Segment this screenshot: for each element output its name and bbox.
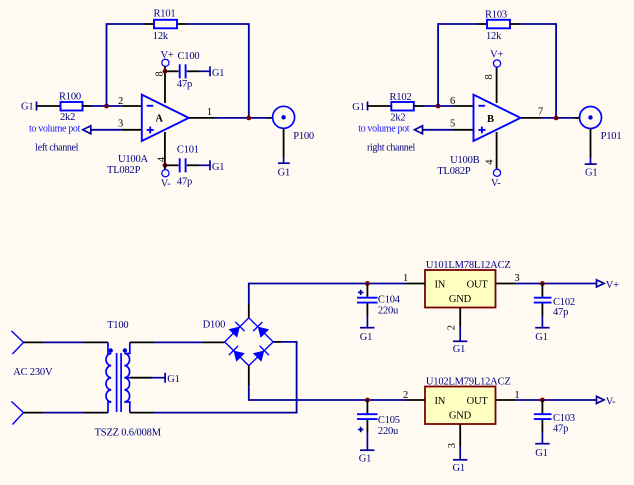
svg-text:G1: G1 <box>535 332 547 343</box>
svg-text:1: 1 <box>403 273 408 284</box>
junction node output <box>246 116 251 121</box>
svg-text:2: 2 <box>403 390 408 401</box>
pin 4 of U100A <box>164 132 166 165</box>
capacitor C101 <box>165 158 199 172</box>
wire output to P100 <box>215 117 267 119</box>
svg-text:5: 5 <box>450 119 455 130</box>
junction node inverting input <box>104 104 109 109</box>
svg-text:V+: V+ <box>606 280 619 291</box>
pin 1 of U101 <box>405 283 425 285</box>
svg-text:TL082P: TL082P <box>107 165 141 176</box>
junction node C103 <box>540 398 545 403</box>
svg-text:G1: G1 <box>21 102 33 113</box>
wire U101 out to V+ port <box>516 283 597 285</box>
pin 4 of U100B <box>496 132 498 169</box>
op-amp U100A <box>142 95 189 141</box>
power port G1 below U102 GND <box>453 446 468 474</box>
svg-text:V+: V+ <box>161 50 174 61</box>
svg-text:R102: R102 <box>390 92 412 103</box>
svg-text:OUT: OUT <box>467 280 489 291</box>
feedback wire R101 to output node <box>187 24 249 118</box>
svg-text:GND: GND <box>449 410 472 421</box>
capacitor C102 <box>534 284 552 316</box>
svg-text:7: 7 <box>538 107 543 118</box>
voltage regulator U101 <box>425 270 496 308</box>
svg-text:2k2: 2k2 <box>60 112 75 123</box>
feedback wire R103 to output node <box>520 24 557 118</box>
svg-text:1: 1 <box>207 107 212 118</box>
svg-text:T100: T100 <box>107 320 128 331</box>
wire V+ circle to junction <box>164 66 166 71</box>
sheet entry arrow (non-inverting input B) <box>415 126 423 134</box>
wire G1 to R102 <box>368 105 392 107</box>
svg-text:right channel: right channel <box>367 143 416 154</box>
wire bridge bottom to U102 input <box>249 387 405 400</box>
svg-text:G1: G1 <box>453 344 465 355</box>
junction node C104 <box>365 281 370 286</box>
port V- output <box>597 396 617 407</box>
svg-text:D100: D100 <box>203 320 226 331</box>
svg-text:8: 8 <box>484 74 495 79</box>
connector P101 <box>574 107 602 158</box>
pin 3 of U101 <box>496 283 516 285</box>
svg-text:2: 2 <box>447 325 458 330</box>
junction node pin4/C101 <box>163 163 168 168</box>
op-amp U100B <box>474 95 521 141</box>
svg-text:12k: 12k <box>486 31 502 42</box>
junction node pin8/C100 <box>163 69 168 74</box>
svg-text:C104: C104 <box>378 295 401 306</box>
capacitor C100 <box>165 64 199 78</box>
svg-text:P101: P101 <box>601 131 622 142</box>
svg-text:GND: GND <box>449 294 472 305</box>
svg-text:3: 3 <box>514 273 519 284</box>
pin 1 output of U100A <box>189 117 215 119</box>
power port G1 below C103 <box>535 432 549 459</box>
power port G1 below U101 GND <box>453 326 468 355</box>
power port G1 center tap <box>165 373 180 386</box>
resistor R101 <box>145 20 187 29</box>
power port G1 below C105 <box>359 432 375 465</box>
diamond body <box>225 318 274 366</box>
junction node inverting input B <box>436 104 441 109</box>
pin 2 of U102 <box>405 399 425 401</box>
svg-text:G1: G1 <box>359 454 371 465</box>
svg-text:C103: C103 <box>553 413 575 424</box>
svg-text:47p: 47p <box>177 79 192 90</box>
power port G1 at R102 input <box>352 102 367 113</box>
capacitor C104 (electrolytic) <box>357 284 378 316</box>
diode D100-2 (right to top) <box>253 322 269 338</box>
svg-text:TSZZ 0.6/008M: TSZZ 0.6/008M <box>95 428 162 439</box>
diode D100-3 (bottom to left) <box>229 346 245 362</box>
feedback wire up to R103 <box>438 24 477 106</box>
pin 8 of U100A <box>164 71 166 103</box>
svg-text:G1: G1 <box>212 162 224 173</box>
svg-text:G1: G1 <box>352 102 364 113</box>
svg-text:3: 3 <box>118 119 123 130</box>
svg-text:G1: G1 <box>167 374 179 385</box>
wire G1 to R100 <box>37 105 61 107</box>
svg-text:IN: IN <box>435 396 446 407</box>
svg-text:U102LM79L12ACZ: U102LM79L12ACZ <box>426 377 511 388</box>
power port V+ top (B) <box>490 50 503 68</box>
wire arrow to pin 5 <box>423 129 454 131</box>
svg-text:47p: 47p <box>177 177 192 188</box>
power port G1 right of C101 <box>199 160 224 173</box>
secondary winding <box>124 342 129 353</box>
core <box>116 353 118 412</box>
svg-text:C105: C105 <box>378 415 400 426</box>
svg-text:220u: 220u <box>378 306 399 317</box>
diode D100-4 (bottom to right) <box>253 346 269 362</box>
pin 3 GND of U102 <box>459 424 461 446</box>
capacitor C103 <box>534 400 552 432</box>
svg-text:V-: V- <box>491 178 501 189</box>
wire bridge top to U101 input <box>249 284 405 305</box>
pin 3 of U100A <box>122 129 142 131</box>
bridge pins <box>248 304 250 318</box>
connector AC input top <box>12 331 24 354</box>
wire center tap to G1 <box>131 377 166 379</box>
power port G1 below C104 <box>360 316 375 343</box>
svg-text:U101LM78L12ACZ: U101LM78L12ACZ <box>426 260 511 271</box>
svg-text:R100: R100 <box>59 92 81 103</box>
sheet entry arrow (non-inverting input) <box>83 126 91 134</box>
svg-text:V-: V- <box>606 396 616 407</box>
svg-text:2: 2 <box>118 96 123 107</box>
svg-text:V-: V- <box>161 179 171 190</box>
pin 6 of U100B <box>454 105 474 107</box>
resistor R100 <box>61 102 93 111</box>
wire arrow to pin 3 <box>91 129 122 131</box>
pin 2 of U100A <box>122 105 142 107</box>
primary winding <box>108 342 111 353</box>
resistor R103 <box>478 20 520 29</box>
secondary phase dot <box>123 348 127 352</box>
pin 5 of U100B <box>454 129 474 131</box>
diode D100-1 (left to top) <box>229 322 245 338</box>
svg-text:TL082P: TL082P <box>437 166 471 177</box>
plus sign C105 <box>358 429 363 431</box>
connector AC input bottom <box>12 402 24 425</box>
svg-text:U100B: U100B <box>450 155 480 166</box>
wire AC bottom to transformer <box>24 412 109 414</box>
power port G1 below P101 <box>585 158 598 179</box>
power port G1 below P100 <box>278 157 290 178</box>
svg-text:220u: 220u <box>378 426 399 437</box>
port V+ output <box>597 280 620 291</box>
resistor R102 <box>391 102 423 111</box>
svg-text:3: 3 <box>447 443 458 448</box>
junction node C102 <box>540 281 545 286</box>
bridge rectifier D100 <box>225 304 274 387</box>
center tap stub <box>124 377 130 379</box>
svg-text:G1: G1 <box>212 68 224 79</box>
wire secondary top to bridge <box>130 341 225 343</box>
wire U102 out to V- port <box>516 399 597 401</box>
power port G1 right of C100 <box>199 66 224 79</box>
svg-text:R101: R101 <box>154 8 176 19</box>
pin 1 of U102 <box>496 399 516 401</box>
svg-text:P100: P100 <box>293 131 314 142</box>
wire R102 to node <box>424 105 454 107</box>
svg-text:G1: G1 <box>278 167 290 178</box>
voltage regulator U102 <box>425 387 496 425</box>
svg-text:G1: G1 <box>585 167 597 178</box>
plus sign C104 <box>358 291 363 293</box>
svg-text:R103: R103 <box>485 10 507 21</box>
svg-text:G1: G1 <box>453 463 465 474</box>
pin 8 of U100B <box>496 67 498 103</box>
wire output to P101 <box>542 117 574 119</box>
svg-text:OUT: OUT <box>467 396 489 407</box>
feedback wire up to R101 <box>107 24 145 106</box>
power port G1 at R100 input <box>21 102 37 113</box>
connector P100 <box>267 106 295 157</box>
pin 7 output of U100B <box>521 117 542 119</box>
svg-text:2k2: 2k2 <box>390 113 405 124</box>
svg-text:B: B <box>487 114 494 125</box>
svg-text:IN: IN <box>435 280 446 291</box>
svg-text:U100A: U100A <box>118 154 149 165</box>
svg-text:47p: 47p <box>553 307 568 318</box>
svg-text:6: 6 <box>450 96 455 107</box>
svg-text:AC 230V: AC 230V <box>13 367 53 378</box>
primary phase dot <box>109 348 113 352</box>
svg-text:to volume pot: to volume pot <box>358 123 410 134</box>
wire AC top to transformer <box>24 341 109 343</box>
capacitor C105 (electrolytic) <box>357 400 378 432</box>
pin 2 GND of U101 <box>459 308 461 327</box>
svg-text:left channel: left channel <box>35 143 78 154</box>
svg-text:to volume pot: to volume pot <box>29 123 81 134</box>
svg-text:12k: 12k <box>153 31 169 42</box>
power port V+ top <box>161 50 174 66</box>
svg-text:V+: V+ <box>490 50 503 61</box>
power port G1 below C102 <box>535 316 549 343</box>
junction node output B <box>554 116 559 121</box>
svg-text:G1: G1 <box>535 448 547 459</box>
transformer T100 <box>106 342 131 412</box>
svg-text:C100: C100 <box>178 51 200 62</box>
svg-text:A: A <box>155 113 163 124</box>
junction node C105 <box>365 398 370 403</box>
svg-text:47p: 47p <box>553 424 568 435</box>
power port V- bottom <box>161 165 171 189</box>
wire R100 to node <box>92 105 122 107</box>
svg-text:C101: C101 <box>177 145 199 156</box>
power port V- bottom (B) <box>491 169 501 189</box>
svg-text:G1: G1 <box>360 332 372 343</box>
wire secondary bottom to bridge right <box>130 342 297 413</box>
